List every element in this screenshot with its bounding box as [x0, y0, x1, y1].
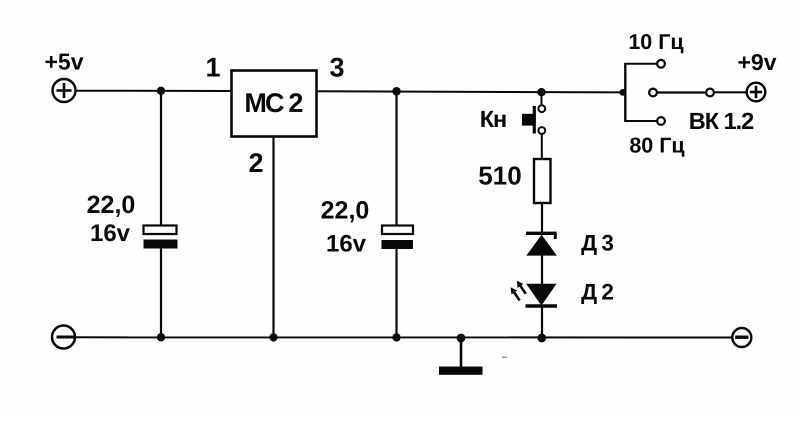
op-amp U1 MC2 regulator box: [232, 71, 317, 137]
node junction top of button branch: [537, 88, 545, 96]
switch BK1.2 pole bar: [624, 63, 626, 121]
svg-text:+9v: +9v: [737, 49, 776, 75]
wire C1 bottom lead: [160, 249, 162, 338]
svg-text:16v: 16v: [90, 220, 131, 247]
node junction D2 bottom: [537, 334, 546, 343]
svg-text:510: 510: [478, 160, 521, 190]
wire button to resistor: [541, 134, 543, 160]
terminal +5v: [53, 79, 76, 102]
wire C2 bottom lead: [395, 249, 397, 338]
svg-text:ВК 1.2: ВК 1.2: [689, 108, 754, 134]
svg-text:2: 2: [248, 148, 263, 178]
svg-text:16v: 16v: [326, 231, 367, 258]
svg-text:3: 3: [329, 53, 344, 83]
wire button top lead: [541, 92, 543, 105]
node junction top of C1: [157, 87, 165, 95]
wire noise speck: [502, 357, 507, 359]
node junction C2 bottom: [392, 333, 400, 341]
svg-text:+5v: +5v: [44, 49, 83, 75]
terminal minus right: [732, 328, 751, 347]
wire top rail left: +5v terminal to MC2 pin 1: [76, 90, 232, 92]
svg-text:Д 3: Д 3: [581, 230, 613, 255]
node 80 Hz contact: [657, 117, 665, 125]
wire top rail right: MC2 pin 3 to switch: [317, 91, 624, 92]
svg-text:MC 2: MC 2: [244, 88, 302, 118]
terminal minus left: [52, 326, 75, 349]
pushbutton Kn: [522, 105, 545, 134]
node junction ground: [457, 334, 466, 343]
wire switch bottom throw stub: [624, 120, 657, 122]
capacitor C1 22,0 16v: [144, 226, 178, 249]
node junction top of C2: [392, 87, 401, 96]
wire resistor to D3: [541, 203, 543, 233]
wire switch top throw stub: [624, 63, 657, 65]
svg-text:Кн: Кн: [480, 106, 507, 132]
ground: [439, 338, 483, 375]
node 10 Hz contact: [657, 60, 665, 68]
wire connector to +9v terminal: [715, 91, 748, 93]
wire common contact to connector: [658, 91, 706, 93]
LED D2: [511, 281, 557, 306]
node connector contact: [706, 89, 714, 97]
wire bottom rail: [75, 336, 733, 338]
node junction switch input: [619, 89, 626, 96]
wire C1 top lead: [160, 91, 162, 226]
resistor R1 510: [534, 159, 551, 203]
node junction C1 bottom: [157, 333, 165, 341]
svg-text:1: 1: [205, 53, 220, 83]
svg-text:80 Гц: 80 Гц: [629, 134, 685, 158]
node junction pin 2 bottom: [269, 333, 277, 341]
svg-text:22,0: 22,0: [87, 191, 136, 219]
terminal +9v: [747, 83, 766, 102]
wire D3 to D2: [541, 255, 543, 284]
wire D2 to bottom rail: [541, 306, 543, 338]
wire pin 2 to bottom rail: [272, 137, 274, 338]
capacitor C2 22,0 16v: [382, 226, 414, 250]
diode D3: [526, 233, 557, 256]
svg-text:22,0: 22,0: [321, 197, 370, 225]
svg-text:Д 2: Д 2: [581, 280, 613, 305]
wire C2 top lead: [395, 91, 397, 226]
node switch common contact: [649, 89, 657, 97]
svg-text:10 Гц: 10 Гц: [628, 30, 684, 54]
